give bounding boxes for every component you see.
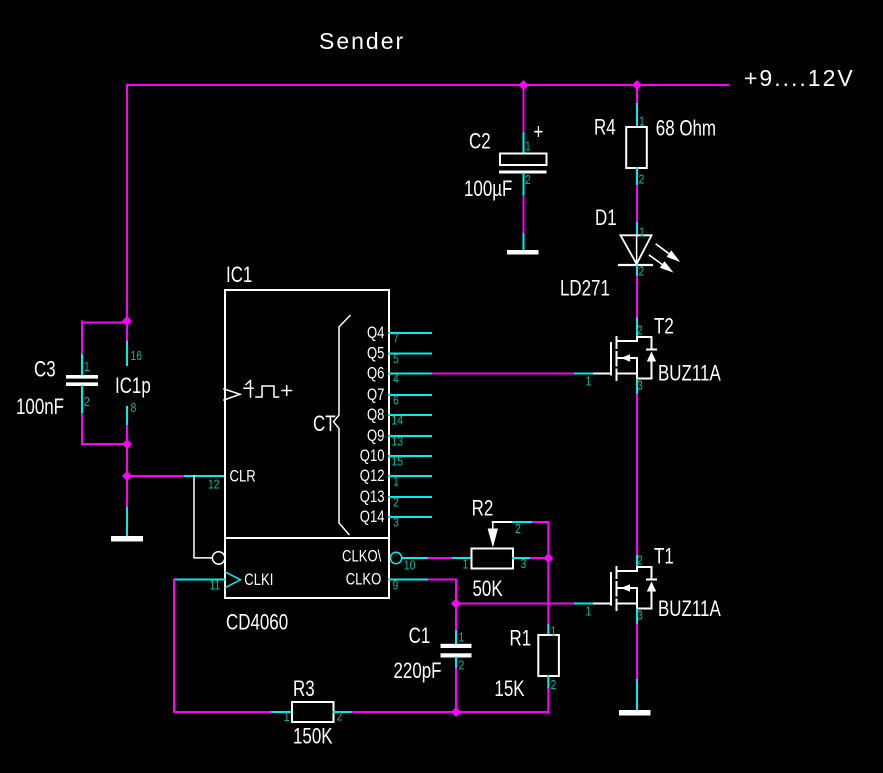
svg-text:2: 2 (639, 172, 645, 186)
svg-text:8: 8 (131, 401, 137, 415)
pin CLKI triangle (226, 572, 241, 588)
pin D1 2 stub (636, 266, 638, 279)
svg-text:CLKI: CLKI (244, 571, 273, 590)
D1 emission arrow upper (656, 244, 680, 262)
svg-text:1: 1 (551, 624, 557, 638)
svg-text:IC1: IC1 (226, 263, 252, 288)
wire C1 to bottom net (455, 669, 457, 712)
junction C1 bottom (451, 707, 461, 717)
IC1 oscillator pulse symbol (256, 386, 279, 397)
wire CLKI down to R3 (174, 580, 272, 713)
svg-text:15K: 15K (494, 677, 524, 702)
wire T1 ground stub (636, 680, 638, 710)
svg-text:1: 1 (586, 374, 592, 388)
svg-text:2: 2 (84, 395, 90, 409)
wire R4 drop from rail (636, 85, 638, 105)
pin T1 source stub (636, 610, 638, 626)
capacitor C1 (441, 644, 472, 658)
svg-text:C3: C3 (34, 357, 56, 382)
pin C1 1 stub (455, 631, 457, 644)
svg-text:Q8: Q8 (367, 405, 384, 424)
wire R4 to D1 (636, 186, 638, 223)
svg-text:R4: R4 (594, 115, 616, 140)
svg-text:1: 1 (393, 474, 399, 488)
wire CLKO right and down (429, 580, 456, 632)
svg-text:3: 3 (521, 557, 527, 571)
svg-text:12: 12 (208, 477, 220, 491)
svg-text:Q9: Q9 (367, 426, 384, 445)
svg-text:Q6: Q6 (367, 364, 384, 383)
svg-text:LD271: LD271 (560, 276, 610, 301)
pin C2 1 stub (523, 133, 525, 153)
junction rail R4 (632, 80, 642, 90)
svg-text:5: 5 (393, 352, 399, 366)
svg-text:3: 3 (637, 608, 643, 622)
wire left vertical from rail to IC1p pin16 (126, 85, 128, 342)
svg-text:BUZ11A: BUZ11A (658, 361, 722, 386)
pin R2 3 stub (513, 557, 531, 559)
wire R2 wiper to right (533, 522, 548, 558)
ground below T1 (619, 710, 651, 716)
junction CLR branch (122, 471, 132, 481)
svg-text:3: 3 (393, 515, 399, 529)
svg-text:100nF: 100nF (16, 395, 64, 420)
IC1 oscillator plus symbol (282, 386, 292, 396)
transistor T2 BUZ11A (611, 337, 656, 380)
wire R2 junction down to R1 (547, 558, 549, 625)
svg-text:IC1p: IC1p (115, 374, 151, 399)
wire white CLR to lower-section bubble (194, 476, 212, 558)
capacitor C3 (66, 375, 98, 386)
IC1 section divider (225, 537, 389, 539)
ground below C3 (111, 536, 143, 542)
wire CLR net horizontal (127, 475, 185, 477)
pin CLKO\ 10 stub (402, 557, 429, 559)
pin T1 gate stub (575, 603, 594, 605)
svg-text:1: 1 (525, 139, 531, 153)
junction C3 bottom (122, 439, 132, 449)
ground below C2 (507, 250, 539, 255)
pin R3 1 stub (272, 711, 292, 713)
svg-text:Q13: Q13 (360, 487, 385, 506)
svg-text:2: 2 (515, 522, 521, 536)
pin T2 drain stub (636, 318, 638, 337)
svg-text:CD4060: CD4060 (226, 610, 288, 635)
wire C3 top branch (82, 322, 127, 356)
wire C2 ground stub (523, 234, 525, 250)
svg-text:1: 1 (639, 225, 645, 239)
svg-text:CT: CT (313, 412, 336, 437)
svg-text:CLR: CLR (230, 467, 256, 486)
svg-text:50K: 50K (473, 577, 503, 602)
wire R1 to bottom net (547, 689, 549, 713)
svg-text:Q12: Q12 (360, 466, 385, 485)
pin R4 2 stub (636, 168, 638, 186)
pin R2 2 stub (513, 521, 533, 523)
pin Q5 stub (389, 353, 431, 355)
wire CLKO to T1 gate (456, 603, 575, 605)
svg-text:2: 2 (637, 323, 643, 337)
svg-text:Q10: Q10 (360, 446, 385, 465)
wire T2 gate lead white (594, 373, 611, 375)
svg-text:+: + (534, 120, 544, 145)
svg-text:BUZ11A: BUZ11A (658, 597, 722, 622)
svg-text:1: 1 (463, 557, 469, 571)
svg-text:Sender: Sender (319, 28, 405, 54)
wire +V rail (127, 84, 728, 86)
pin R1 1 stub (547, 625, 549, 635)
pin D1 1 stub (636, 223, 638, 236)
svg-text:1: 1 (459, 630, 465, 644)
wire IC1p pin8 down to CLR junction (126, 426, 128, 509)
pin Q4 stub (389, 332, 431, 334)
pin Q13 stub (389, 496, 431, 498)
D1 emission arrow lower (650, 255, 674, 272)
svg-text:150K: 150K (293, 724, 333, 749)
svg-text:2: 2 (551, 678, 557, 692)
junction R2 output (543, 553, 553, 563)
svg-text:CLKO: CLKO (346, 570, 382, 589)
bubble on IC1 lower section left (212, 552, 224, 564)
pin Q8 stub (389, 414, 431, 416)
pin Q14 stub (389, 516, 431, 518)
pin Q7 stub (389, 394, 431, 396)
diode D1 LED (619, 235, 652, 265)
svg-text:7: 7 (393, 331, 399, 345)
svg-text:1: 1 (284, 710, 290, 724)
svg-text:Q14: Q14 (360, 507, 385, 526)
pin Q10 stub (389, 455, 431, 457)
svg-text:13: 13 (392, 434, 404, 448)
svg-text:+9....12V: +9....12V (744, 65, 855, 91)
resistor R3 (292, 702, 334, 722)
wire C3 pin2 stub (81, 386, 83, 414)
svg-text:2: 2 (639, 264, 645, 278)
svg-text:T2: T2 (654, 314, 674, 339)
wire R2 3 to junction (531, 557, 548, 559)
pin T1 drain stub (636, 556, 638, 567)
pin R3 2 stub (334, 711, 353, 713)
wire R2 wiper white segment (493, 521, 513, 523)
svg-text:R3: R3 (293, 677, 315, 702)
wire C3 bottom branch (82, 414, 127, 445)
pin CLKI 11 stub (174, 579, 225, 581)
svg-text:C2: C2 (469, 129, 491, 154)
wire C2 to ground (523, 197, 525, 235)
pin C1 2 stub (455, 658, 457, 671)
svg-text:9: 9 (393, 578, 399, 592)
svg-text:3: 3 (637, 378, 643, 392)
svg-text:Q4: Q4 (367, 323, 384, 342)
wire Q6 to T2 gate (431, 373, 575, 375)
pin CLR 12 stub (185, 475, 225, 477)
wire R3 to C1/R1 bottom (353, 711, 549, 713)
pin R1 2 stub (547, 676, 549, 689)
svg-text:D1: D1 (595, 206, 617, 231)
svg-text:16: 16 (131, 349, 143, 363)
IC1 oscillator symbol 1 (244, 381, 253, 398)
svg-text:Q5: Q5 (367, 344, 384, 363)
resistor R4 (626, 127, 647, 168)
junction rail C2 (519, 80, 529, 90)
resistor R1 (538, 635, 559, 676)
svg-text:220pF: 220pF (394, 659, 442, 684)
svg-text:C1: C1 (409, 624, 431, 649)
wire T1 source to ground (636, 625, 638, 680)
capacitor C2 (499, 154, 547, 174)
junction at rail/left vertical C3 top (122, 316, 132, 326)
svg-text:2: 2 (337, 710, 343, 724)
pin T2 gate stub (575, 373, 594, 375)
svg-text:15: 15 (392, 454, 404, 468)
svg-text:1: 1 (84, 360, 90, 374)
svg-text:14: 14 (392, 413, 404, 427)
wire CLKO\ to R2 (429, 557, 453, 559)
svg-text:2: 2 (637, 553, 643, 567)
pin IC1p 16 stub (126, 342, 128, 365)
svg-text:11: 11 (210, 578, 221, 592)
svg-text:R1: R1 (510, 626, 532, 651)
svg-text:T1: T1 (654, 544, 674, 569)
pin Q6 stub (389, 373, 431, 375)
pin T2 source stub (636, 380, 638, 396)
svg-text:R2: R2 (472, 497, 494, 522)
wire T1 gate lead white (594, 603, 611, 605)
op IC1 CD4060 box (225, 290, 389, 598)
IC1 oscillator input marker (224, 389, 240, 400)
wire ground stub below CLR junction (126, 508, 128, 536)
wire T2 source to T1 drain (636, 395, 638, 556)
pin R2 1 stub (453, 557, 472, 559)
pin Q9 stub (389, 435, 431, 437)
svg-text:10: 10 (404, 558, 416, 572)
wire D1 to T2 drain (636, 277, 638, 318)
svg-text:1: 1 (639, 114, 645, 128)
svg-text:6: 6 (393, 393, 399, 407)
IC1 CT bracket (334, 316, 351, 535)
svg-text:CLKO\: CLKO\ (342, 547, 382, 566)
transistor T1 BUZ11A (611, 567, 656, 610)
wire C2 drop from rail (523, 85, 525, 133)
pin Q12 stub (389, 475, 431, 477)
svg-text:2: 2 (393, 495, 399, 509)
pin IC1p 8 stub (126, 407, 128, 426)
svg-text:4: 4 (393, 372, 399, 386)
svg-text:Q7: Q7 (367, 385, 384, 404)
junction CLKO/T1 gate/C1 (451, 599, 461, 609)
svg-text:68 Ohm: 68 Ohm (656, 116, 716, 141)
svg-text:2: 2 (459, 658, 465, 672)
pin CLKO 9 stub (389, 579, 429, 581)
potentiometer R2 (472, 522, 514, 569)
pin C2 2 stub (523, 174, 525, 197)
svg-text:100µF: 100µF (464, 177, 512, 202)
svg-text:1: 1 (586, 604, 592, 618)
bubble pin CLKO\ (390, 552, 401, 563)
pin R4 1 stub (636, 104, 638, 127)
svg-text:2: 2 (525, 173, 531, 187)
wire C3 pin1 stub (81, 355, 83, 375)
